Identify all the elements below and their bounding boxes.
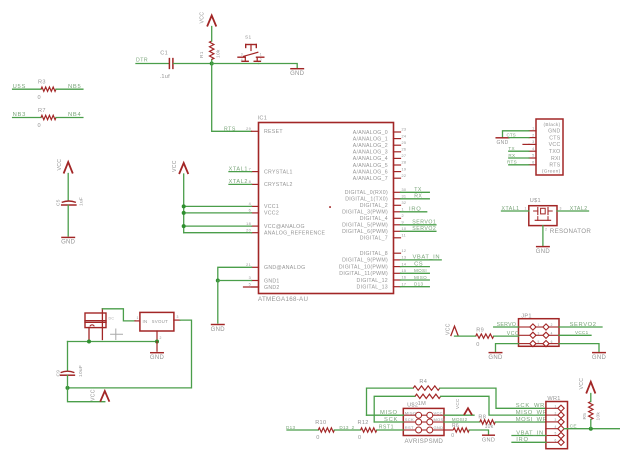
pin A/ANALOG_5 (28) of IC1 [394, 164, 401, 166]
pin DIGITAL_2 (32) of IC1 [394, 204, 401, 206]
svg-text:A/ANALOG_6: A/ANALOG_6 [353, 169, 388, 175]
junction VCC2 [182, 211, 186, 215]
svg-text:A/ANALOG_2: A/ANALOG_2 [353, 143, 388, 149]
svg-text:DIGITAL_6(PWM): DIGITAL_6(PWM) [342, 229, 388, 235]
svg-text:A/ANALOG_1: A/ANALOG_1 [353, 136, 388, 142]
wire R9 to JP1 pin3 [494, 335, 519, 337]
svg-text:IN: IN [143, 319, 148, 324]
svg-text:GND: GND [482, 437, 495, 443]
svg-text:VCC1: VCC1 [264, 204, 279, 210]
svg-text:1: 1 [532, 127, 534, 131]
svg-text:5VOUT: 5VOUT [152, 319, 168, 324]
svg-text:1uF: 1uF [78, 197, 84, 206]
wire D13 to R10 [287, 429, 318, 431]
connector JP1 box [519, 319, 560, 347]
svg-text:VBAT_IN: VBAT_IN [516, 430, 544, 436]
wire junction up to R1 [211, 60, 213, 64]
pin DIGITAL_13 (17) of IC1 [394, 286, 401, 288]
pin DIGITAL_3(PWM) (1) of IC1 [394, 211, 401, 213]
svg-text:4: 4 [551, 332, 553, 336]
resistor R5 pullup [589, 402, 593, 420]
wire net SERVO2 [401, 230, 436, 232]
pin DIGITAL_6(PWM) (10) of IC1 [394, 230, 401, 232]
svg-text:29: 29 [246, 127, 251, 131]
svg-text:TX: TX [508, 146, 514, 151]
svg-text:10k: 10k [215, 49, 221, 58]
wire R1 to VCC [211, 27, 213, 42]
wire net VBAT_IN to WR1 pin5 [512, 435, 546, 437]
connector FTDI header [536, 119, 563, 175]
svg-text:0: 0 [316, 435, 319, 441]
svg-text:24: 24 [402, 134, 407, 138]
svg-text:SCK: SCK [384, 417, 398, 423]
svg-text:XTAL2: XTAL2 [570, 206, 588, 212]
pin pair 1/2 of JP1 [519, 326, 531, 328]
pin DIGITAL_9(PWM) (13) of IC1 [394, 259, 401, 261]
junction reset node [210, 62, 214, 66]
pin 3 XTAL2 wire [557, 210, 589, 212]
svg-text:DIGITAL_5(PWM): DIGITAL_5(PWM) [342, 223, 388, 229]
resistor R9 [476, 334, 494, 338]
ground after S1 [291, 68, 304, 70]
wire R4 to WR1 pin1 [440, 388, 546, 408]
wire S1 to GND [259, 64, 298, 68]
pin RTS (6) of FTDI header [529, 164, 536, 166]
svg-text:DC: DC [109, 317, 115, 321]
wire net VBAT_IN [401, 259, 442, 261]
wire net TX to TXO [509, 150, 529, 152]
svg-text:2: 2 [260, 58, 262, 62]
wire reset net down to IC RESET pin [212, 64, 252, 132]
svg-text:19: 19 [402, 167, 407, 171]
pin 1 IN stub [135, 320, 140, 322]
wire C1 to junction [174, 63, 212, 65]
svg-text:RST: RST [405, 425, 414, 430]
wire rail down to C9 [67, 342, 69, 371]
wire FTDI GND to ground [503, 131, 530, 137]
ground FTDI [496, 137, 509, 139]
svg-text:MOSI: MOSI [414, 268, 427, 273]
svg-text:VCC: VCC [455, 398, 460, 409]
wire net RX to RXI [509, 157, 529, 159]
wire to ANALOG_REFERENCE [184, 232, 252, 234]
svg-text:11: 11 [402, 234, 407, 238]
ground regulator [151, 352, 164, 354]
junction CE pullup [589, 427, 593, 431]
pin TXO (4) of FTDI header [529, 150, 536, 152]
pin pair 3/4 of JP1 [519, 334, 531, 336]
svg-text:RTS: RTS [224, 126, 236, 132]
svg-text:RTS: RTS [507, 160, 517, 165]
svg-text:GND: GND [592, 355, 607, 361]
svg-text:5: 5 [538, 340, 540, 344]
svg-text:28: 28 [402, 161, 407, 165]
stub VCC pin FTDI [523, 143, 529, 145]
battery connector JST [85, 313, 106, 328]
svg-text:DIGITAL_3(PWM): DIGITAL_3(PWM) [342, 210, 388, 216]
pad 4 of WR1 [546, 428, 558, 430]
svg-text:DIGITAL_13: DIGITAL_13 [357, 285, 388, 291]
resistor R1 [210, 41, 214, 60]
wire battery plus to regulator IN [102, 309, 135, 321]
svg-text:IRQ: IRQ [516, 437, 529, 443]
svg-text:CRYSTAL1: CRYSTAL1 [264, 169, 293, 175]
pin DIGITAL_8 (12) of IC1 [394, 252, 401, 254]
svg-text:VCC1: VCC1 [575, 330, 589, 335]
svg-text:RX: RX [414, 194, 422, 200]
svg-text:DIGITAL_2: DIGITAL_2 [360, 203, 388, 209]
svg-text:VBAT_IN: VBAT_IN [413, 255, 441, 261]
resistor R4 [413, 386, 440, 390]
ground JP1 left [489, 352, 502, 354]
wire SCK loop left [374, 396, 415, 422]
svg-text:MOSI_WR: MOSI_WR [516, 417, 548, 423]
wire net U5S row1 left [13, 88, 41, 90]
svg-text:S1: S1 [245, 35, 251, 41]
svg-text:ANALOG_REFERENCE: ANALOG_REFERENCE [264, 231, 326, 237]
svg-text:GND: GND [488, 355, 503, 361]
svg-text:3: 3 [555, 418, 557, 422]
svg-text:1: 1 [555, 405, 557, 409]
wire C9 to VCC junction [67, 376, 69, 388]
svg-text:GND1: GND1 [264, 278, 280, 284]
svg-text:C1: C1 [160, 51, 168, 57]
svg-text:1: 1 [525, 206, 527, 210]
wire R11 to WR1 pin2 [441, 396, 546, 415]
svg-text:VCC: VCC [199, 12, 205, 24]
svg-text:2: 2 [160, 336, 162, 340]
resistor R3 [41, 87, 56, 91]
wire net TX [401, 191, 430, 193]
wire ISP VCC pad to arrow [444, 414, 474, 416]
wire C5 to GND [67, 205, 69, 236]
junction VCC1 [182, 204, 186, 208]
svg-text:DIGITAL_8: DIGITAL_8 [360, 251, 388, 257]
svg-text:R1: R1 [199, 51, 205, 58]
svg-text:VCC: VCC [549, 142, 561, 148]
svg-text:DIGITAL_4: DIGITAL_4 [360, 216, 388, 222]
wire net SERVO2 from JP1 pin2 [559, 326, 602, 328]
svg-text:3: 3 [538, 332, 540, 336]
wire net SERVO to JP1 pin1 [494, 326, 519, 328]
svg-text:1: 1 [137, 316, 139, 320]
svg-text:DIGITAL_0(RX0): DIGITAL_0(RX0) [345, 190, 388, 196]
capacitor C1 [168, 59, 170, 69]
svg-text:RX: RX [508, 153, 515, 158]
pin DIGITAL_11(PWM) (15) of IC1 [394, 272, 401, 274]
wire R12 to ISP RST [377, 429, 404, 431]
svg-text:GND@ANALOG: GND@ANALOG [264, 265, 305, 271]
pin A/ANALOG_0 (23) of IC1 [394, 131, 401, 133]
svg-text:A/ANALOG_7: A/ANALOG_7 [353, 176, 388, 182]
pin DIGITAL_12 (16) of IC1 [394, 279, 401, 281]
resonator internal symbol [537, 208, 539, 215]
ground R6 [483, 434, 495, 436]
svg-text:2: 2 [555, 411, 557, 415]
pin GND2 (5) of IC1 [252, 286, 259, 288]
wire regulator gnd to ground [156, 342, 158, 352]
svg-text:R7: R7 [38, 108, 46, 114]
pin A/ANALOG_4 (27) of IC1 [394, 157, 401, 159]
svg-text:TXO: TXO [549, 149, 561, 155]
svg-text:RESET: RESET [264, 129, 283, 135]
svg-text:1: 1 [538, 323, 540, 327]
junction regulator gnd on rail [155, 340, 159, 344]
pin DIGITAL_4 (2) of IC1 [394, 217, 401, 219]
svg-text:IRQ: IRQ [409, 207, 422, 213]
svg-text:GND: GND [536, 249, 551, 255]
svg-text:SERVO2: SERVO2 [570, 322, 597, 328]
VCC symbol feeding IC supply pins [179, 163, 188, 174]
wire JP1 pin5 to ground [496, 344, 519, 352]
svg-text:CS: CS [414, 261, 423, 267]
svg-text:9: 9 [402, 221, 404, 225]
svg-text:16: 16 [402, 276, 407, 280]
svg-text:1: 1 [402, 208, 404, 212]
wire VCC to C5 [67, 174, 69, 200]
svg-text:SERVO: SERVO [497, 322, 517, 328]
wire GND1 to IC [218, 280, 252, 282]
svg-text:22: 22 [402, 174, 407, 178]
wire to VCC@ANALOG [184, 225, 252, 227]
wire net IRQ [401, 211, 427, 213]
wire MISO loop up [367, 388, 414, 415]
svg-text:MISO: MISO [405, 410, 416, 415]
svg-text:0: 0 [451, 433, 454, 439]
pin GND@ANALOG (21) of IC1 [252, 266, 259, 268]
junction VCC at C9 [66, 386, 70, 390]
svg-text:RTS: RTS [549, 163, 560, 169]
svg-text:10uF: 10uF [78, 365, 84, 377]
wire net MISO [401, 279, 430, 281]
svg-text:CRYSTAL2: CRYSTAL2 [264, 182, 293, 188]
svg-text:2: 2 [532, 133, 534, 137]
svg-text:1: 1 [260, 53, 262, 57]
connector WR1 box [546, 402, 568, 449]
wire VCC to R9 [455, 335, 476, 337]
svg-text:R12: R12 [358, 420, 369, 426]
capacitor C9 polarized [61, 371, 75, 372]
svg-text:2: 2 [551, 323, 553, 327]
svg-text:MISO_WR: MISO_WR [516, 410, 548, 416]
svg-text:RESONATOR: RESONATOR [550, 228, 592, 235]
svg-text:0: 0 [476, 342, 479, 348]
pin VCC2 (6) of IC1 [252, 212, 259, 214]
wire net NB4 row2 right [56, 117, 83, 119]
svg-text:20: 20 [246, 228, 251, 232]
svg-text:32: 32 [402, 201, 407, 205]
svg-text:4: 4 [241, 58, 243, 62]
pin VCC@ANALOG (18) of IC1 [252, 225, 259, 227]
svg-text:NB5: NB5 [68, 84, 82, 90]
pin DIGITAL_10(PWM) (14) of IC1 [394, 266, 401, 268]
svg-text:27: 27 [402, 154, 407, 158]
junction battery minus on rail [87, 340, 91, 344]
svg-text:13: 13 [402, 256, 407, 260]
wire GND@ANALOG to GND1 vertical [218, 267, 252, 280]
svg-text:DIGITAL_10(PWM): DIGITAL_10(PWM) [339, 264, 388, 270]
svg-text:10: 10 [402, 227, 407, 231]
wire R5 to VCC [590, 394, 592, 402]
svg-text:6: 6 [249, 209, 251, 213]
ground IC [212, 324, 225, 326]
pin A/ANALOG_6 (19) of IC1 [394, 171, 401, 173]
pin CTS (2) of FTDI header [529, 137, 536, 139]
pin A/ANALOG_3 (26) of IC1 [394, 151, 401, 153]
svg-text:CE: CE [570, 424, 577, 430]
ground JP1 right [593, 352, 606, 354]
svg-text:MOSI: MOSI [434, 417, 445, 422]
wire R5 to CE [590, 420, 592, 429]
svg-text:CTS: CTS [549, 135, 561, 141]
resistor R10 [318, 428, 334, 432]
svg-text:TX: TX [414, 187, 422, 193]
wire net XTAL1 to CRYSTAL1 [229, 171, 252, 173]
pin ANALOG_REFERENCE (20) of IC1 [252, 232, 259, 234]
svg-text:D13_2: D13_2 [339, 425, 354, 430]
svg-text:0: 0 [38, 95, 41, 101]
pin DIGITAL_0(RX0) (30) of IC1 [394, 191, 401, 193]
wire VCC vertical rail [183, 174, 185, 233]
svg-text:DTR: DTR [136, 58, 148, 64]
pin DIGITAL_1(TX0) (31) of IC1 [394, 198, 401, 200]
wire R8 to WR1 pin3 [495, 421, 546, 423]
svg-text:5: 5 [532, 154, 534, 158]
pin A/ANALOG_1 (24) of IC1 [394, 138, 401, 140]
wire CE from WR1 pin4 [564, 428, 620, 430]
ground C5 [62, 236, 74, 238]
svg-text:31: 31 [402, 195, 407, 199]
svg-text:A/ANALOG_0: A/ANALOG_0 [353, 130, 388, 136]
svg-text:NB4: NB4 [68, 112, 82, 118]
svg-text:23: 23 [402, 128, 407, 132]
pin DIGITAL_5(PWM) (9) of IC1 [394, 224, 401, 226]
wire net MOSI [401, 272, 430, 274]
wire to VCC1 [184, 205, 252, 207]
svg-text:21: 21 [246, 263, 251, 267]
svg-text:MISO: MISO [380, 410, 398, 416]
svg-text:U5S: U5S [13, 84, 27, 90]
svg-text:12: 12 [402, 249, 407, 253]
pad 2 of WR1 [546, 414, 558, 416]
svg-text:VCC2: VCC2 [264, 211, 279, 217]
svg-text:SERVO2: SERVO2 [412, 226, 436, 232]
wire net SERVO1 [401, 224, 436, 226]
svg-text:R9: R9 [476, 328, 484, 334]
svg-text:3: 3 [177, 315, 179, 319]
svg-text:VCC: VCC [434, 410, 443, 415]
wire R6 to ground [469, 430, 488, 434]
wire net RX [401, 198, 430, 200]
resistor R6 [453, 428, 469, 432]
svg-text:5: 5 [249, 283, 251, 287]
svg-text:0: 0 [38, 123, 41, 129]
svg-text:3: 3 [241, 53, 243, 57]
wire to VCC2 [184, 212, 252, 214]
junction GND1 node [216, 279, 220, 283]
wire regulator output VCC loop [68, 320, 192, 388]
wire JP1 pin6 to ground [559, 344, 599, 352]
svg-text:C5: C5 [56, 199, 62, 206]
svg-text:15: 15 [402, 269, 407, 273]
VCC symbol output [100, 391, 109, 402]
svg-text:NB3: NB3 [13, 112, 27, 118]
svg-text:RXI: RXI [551, 156, 561, 162]
svg-text:XTAL1: XTAL1 [502, 206, 520, 212]
svg-text:17: 17 [402, 282, 407, 286]
pad 3 of WR1 [546, 421, 558, 423]
wire DTR to C1 [136, 63, 169, 65]
svg-text:GND: GND [61, 240, 76, 246]
svg-text:CTS: CTS [507, 132, 516, 137]
wire net CS [401, 266, 430, 268]
wire net CTS [509, 137, 529, 139]
svg-text:6: 6 [532, 161, 534, 165]
svg-text:8: 8 [249, 180, 251, 184]
svg-text:C9: C9 [55, 370, 61, 377]
svg-text:(Black): (Black) [543, 122, 560, 128]
voltage regulator IC2 [140, 312, 174, 331]
VCC symbol at ISP [464, 408, 472, 415]
pin RXI (5) of FTDI header [529, 157, 536, 159]
wire net NB3 row2 left [13, 117, 41, 119]
pin A/ANALOG_2 (25) of IC1 [394, 144, 401, 146]
resonator U$1 box [529, 206, 557, 226]
svg-text:XTAL1: XTAL1 [229, 166, 248, 172]
svg-text:2: 2 [402, 214, 404, 218]
pin VCC1 (4) of IC1 [252, 205, 259, 207]
svg-text:10k: 10k [595, 412, 601, 421]
svg-text:.1uf: .1uf [160, 74, 171, 80]
svg-text:3: 3 [532, 140, 534, 144]
svg-text:18: 18 [246, 222, 251, 226]
svg-text:XTAL2: XTAL2 [229, 179, 248, 185]
VCC symbol above R1 [207, 16, 216, 27]
svg-text:6: 6 [551, 340, 553, 344]
svg-text:SCK: SCK [405, 417, 414, 422]
pin VCC (3) of FTDI header [529, 143, 536, 145]
svg-text:D13: D13 [286, 425, 295, 430]
pin DIGITAL_7 (11) of IC1 [394, 237, 401, 239]
pin RESET (29) of IC1 [252, 130, 259, 132]
svg-text:R8: R8 [478, 414, 486, 420]
resistor R8 [480, 420, 496, 424]
svg-text:R10: R10 [315, 420, 326, 426]
svg-text:VCC: VCC [172, 160, 178, 172]
pin battery minus [88, 328, 90, 341]
svg-text:VCC@ANALOG: VCC@ANALOG [264, 224, 305, 230]
wire net XTAL2 to CRYSTAL2 [229, 183, 252, 185]
svg-text:(Green): (Green) [542, 168, 561, 174]
pin 1 XTAL1 wire [502, 210, 529, 212]
svg-text:6: 6 [555, 439, 557, 443]
junction VCC@ANALOG [182, 224, 186, 228]
resistor R11 [415, 394, 441, 398]
svg-text:DIGITAL_11(PWM): DIGITAL_11(PWM) [339, 271, 388, 277]
svg-text:VCC: VCC [507, 331, 519, 337]
wire net D13 [401, 286, 430, 288]
pin pair 5/6 of JP1 [519, 343, 531, 345]
svg-text:DIGITAL_7: DIGITAL_7 [360, 236, 388, 242]
svg-text:GND: GND [434, 425, 444, 430]
pin 2 GND stub [156, 331, 158, 342]
pin A/ANALOG_7 (22) of IC1 [394, 177, 401, 179]
svg-text:10k: 10k [485, 424, 494, 430]
svg-text:R3: R3 [38, 80, 46, 86]
svg-text:4: 4 [532, 147, 534, 151]
svg-text:R6: R6 [452, 423, 459, 429]
wire IC ground down [217, 281, 219, 324]
